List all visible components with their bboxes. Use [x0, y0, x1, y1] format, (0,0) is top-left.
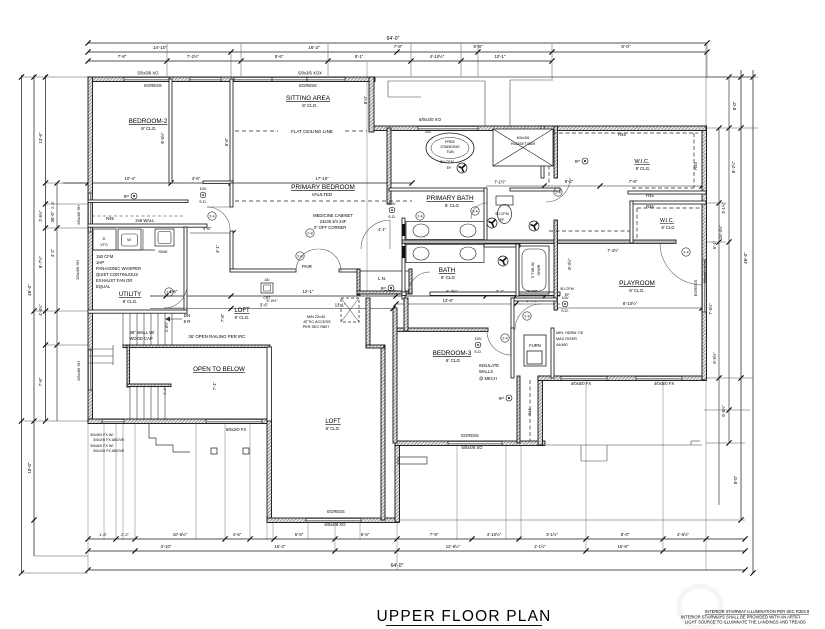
- dim top tier3: [88, 60, 552, 62]
- svg-text:EGRESS: EGRESS: [144, 83, 162, 88]
- svg-text:1'-8": 1'-8": [99, 532, 108, 537]
- dim row y296: [150, 295, 560, 297]
- dim left extensions: [22, 76, 89, 78]
- svg-text:8'-6": 8'-6": [224, 137, 229, 146]
- svg-text:3/0x5/0 FX W/: 3/0x5/0 FX W/: [90, 433, 114, 437]
- svg-text:5' TUB W/: 5' TUB W/: [531, 262, 535, 278]
- wall utility east: [184, 227, 187, 313]
- wall hall west x511: [511, 298, 514, 330]
- dim left x57: [56, 183, 58, 421]
- svg-text:8'-10½": 8'-10½": [623, 301, 638, 306]
- wall furnace west: [511, 328, 514, 378]
- free standing tub: [426, 133, 474, 163]
- door hall: [207, 207, 230, 230]
- svg-text:6/6x2/0 FX: 6/6x2/0 FX: [226, 427, 246, 432]
- svg-text:R45: R45: [527, 408, 532, 416]
- wall long y241: [402, 240, 676, 243]
- svg-text:36" WALL W/: 36" WALL W/: [130, 330, 156, 335]
- svg-text:10V: 10V: [388, 201, 395, 206]
- door primary bath: [361, 220, 390, 249]
- svg-text:8'-7½": 8'-7½": [38, 255, 43, 268]
- svg-text:R45: R45: [618, 132, 626, 137]
- svg-text:7'-9": 7'-9": [430, 532, 439, 537]
- svg-text:6'-5½": 6'-5½": [712, 352, 717, 364]
- wall utility south: [88, 310, 187, 313]
- window left wall lower 2/6x4/6 SH: [88, 350, 93, 390]
- door circle 2-4: [501, 334, 509, 342]
- wall bath west: [402, 218, 405, 299]
- exterior wall right: [702, 126, 707, 380]
- dim right x741: [740, 70, 742, 520]
- svg-text:50 CFM: 50 CFM: [495, 212, 509, 216]
- utility sink: [155, 229, 174, 246]
- svg-text:4'-10½": 4'-10½": [430, 54, 445, 59]
- window loft egress 5/0x4/6 XO: [306, 518, 361, 523]
- svg-text:46'-0": 46'-0": [743, 252, 748, 264]
- svg-text:2-4: 2-4: [683, 251, 688, 255]
- exterior wall bedroom-3 south: [395, 441, 545, 446]
- attic access hatch: [341, 298, 359, 322]
- svg-text:8' CLG: 8' CLG: [441, 275, 456, 280]
- half wall wood cap: [123, 345, 270, 348]
- svg-text:12'-6½": 12'-6½": [446, 544, 461, 549]
- svg-text:2/6x4/6 SH: 2/6x4/6 SH: [76, 205, 81, 225]
- door circle 2-0: [296, 252, 304, 260]
- svg-text:W.I.C.: W.I.C.: [660, 218, 674, 224]
- svg-text:36' OPEN RAILING PER IRC: 36' OPEN RAILING PER IRC: [188, 334, 245, 339]
- vanity primary bath: [406, 222, 484, 240]
- svg-text:2-4: 2-4: [555, 191, 560, 195]
- wall bedroom-3 north: [396, 328, 488, 331]
- svg-text:MIN. HDRM 7/8: MIN. HDRM 7/8: [556, 331, 583, 335]
- wall open-to-below east: [267, 347, 272, 421]
- svg-text:36'-0": 36'-0": [50, 211, 55, 222]
- door toilet room: [471, 203, 487, 219]
- svg-text:CRT: CRT: [263, 296, 271, 300]
- svg-text:HUDSET BAR: HUDSET BAR: [511, 142, 536, 146]
- toilet: [496, 196, 513, 205]
- svg-text:7'-6": 7'-6": [38, 377, 43, 386]
- wall bedroom-3 west: [393, 308, 397, 443]
- window left wall upper 2/6x4/6 SH: [88, 193, 93, 232]
- svg-text:8'-1": 8'-1": [355, 54, 364, 59]
- svg-text:7'-1": 7'-1": [212, 381, 217, 390]
- svg-text:S.D.: S.D.: [561, 308, 569, 313]
- svg-text:2-4: 2-4: [472, 210, 477, 214]
- washer dryer: [93, 229, 116, 250]
- wall toilet room west: [484, 188, 487, 246]
- svg-text:2'-2": 2'-2": [121, 532, 130, 537]
- dim right extensions: [706, 76, 758, 78]
- window playroom east 6/0x4/0 XOX: [702, 260, 707, 312]
- svg-text:1'-1": 1'-1": [163, 387, 167, 395]
- vanity bath: [406, 245, 484, 263]
- svg-text:64'-0": 64'-0": [387, 36, 400, 42]
- dim bottom tier1: [88, 538, 745, 540]
- fan toilet: [487, 218, 497, 228]
- stairs upper flight: [122, 313, 124, 345]
- exterior wall bottom-left: [88, 419, 271, 424]
- svg-text:4/0x5/0 FX: 4/0x5/0 FX: [571, 381, 591, 386]
- svg-text:13'-1": 13'-1": [335, 303, 346, 308]
- wall hall west upper: [366, 298, 370, 348]
- svg-text:4'-8½": 4'-8½": [38, 304, 43, 316]
- svg-text:3'-6½": 3'-6½": [165, 321, 169, 332]
- svg-text:3" OFF CORNER: 3" OFF CORNER: [314, 225, 347, 230]
- wall bedroom-3 east lower: [517, 376, 520, 443]
- dashed closet shelf: [92, 215, 184, 217]
- svg-text:S.D.: S.D.: [474, 349, 482, 354]
- wall hall east upper x404: [404, 298, 408, 331]
- wall primary bedroom south 2: [339, 269, 360, 272]
- svg-text:@ MECH: @ MECH: [479, 376, 497, 381]
- svg-text:SHWR: SHWR: [537, 264, 541, 275]
- svg-text:8'-0": 8'-0": [621, 532, 630, 537]
- svg-text:R45: R45: [693, 161, 698, 169]
- exterior wall left: [88, 77, 93, 423]
- svg-text:3/0x2/0 FX ABOVE: 3/0x2/0 FX ABOVE: [93, 449, 125, 453]
- svg-text:2'-1½": 2'-1½": [534, 544, 546, 549]
- svg-text:9'-5½": 9'-5½": [160, 132, 165, 144]
- svg-text:8' CLG.: 8' CLG.: [302, 103, 317, 108]
- svg-text:EF: EF: [500, 218, 506, 222]
- door circle 2-4: [416, 212, 424, 220]
- wall wic small west: [630, 201, 633, 243]
- svg-text:8'-0": 8'-0": [621, 44, 631, 49]
- svg-text:8'-3½": 8'-3½": [567, 258, 572, 270]
- svg-text:LIGHT SOURCE TO ILLUMINATE THE: LIGHT SOURCE TO ILLUMINATE THE LANDINGS …: [685, 620, 806, 625]
- svg-text:8' CLG.: 8' CLG.: [123, 299, 138, 304]
- ext line x367: [366, 62, 368, 296]
- wall hall y300: [511, 298, 557, 301]
- door wic big: [546, 178, 570, 202]
- svg-text:4'-6": 4'-6": [192, 176, 201, 181]
- window top small: [190, 77, 221, 82]
- svg-text:10'-4": 10'-4": [125, 176, 136, 181]
- svg-text:2-4: 2-4: [502, 337, 507, 341]
- svg-text:EGRESS: EGRESS: [693, 279, 698, 296]
- svg-text:VTO: VTO: [100, 243, 108, 247]
- svg-text:2/0x4/6 SH: 2/0x4/6 SH: [75, 260, 80, 280]
- svg-text:17'-10": 17'-10": [315, 176, 329, 181]
- window bedroom-2 egress: [124, 77, 169, 82]
- dim top 64'-0": [88, 42, 707, 44]
- svg-text:PLAYROOM: PLAYROOM: [619, 280, 655, 287]
- wall wic big west: [541, 126, 544, 178]
- svg-text:8 R: 8 R: [184, 319, 191, 324]
- chimney bump: [398, 457, 427, 464]
- window sitting area egress: [234, 77, 345, 82]
- svg-text:10'-0": 10'-0": [27, 462, 32, 473]
- svg-text:3'-6": 3'-6": [260, 303, 269, 308]
- svg-text:16'-2": 16'-2": [308, 45, 320, 50]
- wall hall x554: [554, 220, 557, 310]
- svg-text:4'-1": 4'-1": [215, 244, 220, 253]
- svg-text:12'-1": 12'-1": [303, 289, 314, 294]
- wall bath east upper: [554, 126, 557, 178]
- svg-text:10V: 10V: [561, 295, 568, 300]
- svg-text:LOFT: LOFT: [325, 419, 341, 425]
- svg-text:8' CLG.: 8' CLG.: [629, 288, 644, 293]
- wall hall south: [203, 181, 233, 183]
- dim row y233: [190, 232, 233, 234]
- svg-text:8'-0": 8'-0": [363, 95, 368, 104]
- svg-text:16'-6": 16'-6": [618, 544, 629, 549]
- svg-text:8' CLG.: 8' CLG.: [326, 426, 341, 431]
- svg-text:50 CFM: 50 CFM: [560, 287, 574, 291]
- svg-text:BP: BP: [499, 396, 505, 401]
- svg-text:PAIR: PAIR: [302, 264, 312, 269]
- utility counter: [92, 249, 155, 251]
- svg-text:ATTIC ACCESS: ATTIC ACCESS: [303, 320, 331, 324]
- svg-text:8' CLG: 8' CLG: [662, 225, 675, 230]
- door bath: [408, 272, 430, 294]
- svg-text:6'-1": 6'-1": [712, 240, 717, 249]
- svg-text:4'-2": 4'-2": [50, 248, 55, 257]
- svg-text:INTERIOR STAIRWAY ILLUMINATION: INTERIOR STAIRWAY ILLUMINATION PER SEC R…: [705, 609, 810, 614]
- door circle 2-4: [165, 288, 173, 296]
- wall closet/utility divider: [88, 224, 207, 227]
- svg-text:2'-4": 2'-4": [50, 200, 55, 209]
- window playroom south 1: [561, 376, 607, 381]
- wall hall east / sitting west upper: [230, 79, 233, 183]
- svg-text:50 CFM: 50 CFM: [440, 160, 454, 164]
- svg-text:2-6: 2-6: [524, 315, 529, 319]
- dashed r45 over garage: [549, 230, 630, 232]
- svg-text:R45: R45: [646, 193, 654, 198]
- svg-text:10V: 10V: [474, 336, 481, 341]
- svg-text:7'-2½": 7'-2½": [187, 54, 200, 59]
- exterior wall loft west: [267, 419, 272, 522]
- door circle 2-4: [208, 212, 216, 220]
- dim row y308 left: [150, 308, 393, 310]
- wall primary bedroom west lower: [230, 231, 233, 271]
- svg-text:S.D.: S.D.: [388, 214, 396, 219]
- svg-text:46'-0": 46'-0": [27, 284, 32, 296]
- svg-text:7'-6½": 7'-6½": [708, 303, 713, 315]
- svg-text:2-8: 2-8: [307, 232, 312, 236]
- svg-text:PRIMARY BEDROOM: PRIMARY BEDROOM: [291, 184, 355, 191]
- wall wic small north: [630, 201, 706, 204]
- svg-text:EGRESS: EGRESS: [299, 83, 317, 88]
- wall primary bedroom south 1: [230, 269, 296, 272]
- window bedroom-3 egress: [448, 441, 502, 446]
- svg-text:BATH: BATH: [439, 267, 456, 274]
- door utility: [164, 285, 187, 308]
- door bedroom-3: [487, 331, 511, 355]
- svg-text:4'-6": 4'-6": [233, 532, 242, 537]
- svg-text:3'-1½": 3'-1½": [546, 532, 558, 537]
- svg-text:24x36 3/4 24F: 24x36 3/4 24F: [320, 219, 347, 224]
- fan bath tub: [529, 221, 539, 231]
- svg-text:8' CLG.: 8' CLG.: [235, 315, 250, 320]
- svg-text:7'-4½": 7'-4½": [607, 248, 619, 253]
- svg-text:6'-5½": 6'-5½": [721, 405, 726, 417]
- dashed vaulted line: [235, 200, 412, 202]
- svg-text:13'-6": 13'-6": [443, 298, 454, 303]
- svg-text:OPEN TO BELOW: OPEN TO BELOW: [193, 366, 245, 373]
- dim bottom extensions: [103, 423, 105, 540]
- wall wic big south: [628, 191, 706, 194]
- dashed r45 wic small: [637, 207, 702, 209]
- roof step left: [149, 423, 190, 452]
- door furnace closet: [515, 304, 541, 330]
- svg-text:EGRESS: EGRESS: [461, 433, 479, 438]
- fan primary bath: [457, 163, 467, 173]
- wall primary bath north 2: [510, 188, 560, 191]
- svg-text:7'-8": 7'-8": [220, 313, 225, 322]
- dim top tier2: [88, 51, 707, 53]
- svg-text:6'-6": 6'-6": [295, 532, 304, 537]
- exterior wall sitting east: [369, 77, 374, 132]
- svg-text:7'-9": 7'-9": [629, 179, 638, 184]
- svg-text:10V: 10V: [199, 186, 206, 191]
- svg-text:DN: DN: [184, 313, 190, 318]
- tub with shower: [519, 246, 549, 294]
- notes watermark circle: [679, 586, 721, 628]
- svg-text:3/0x6/0 FX W/: 3/0x6/0 FX W/: [90, 444, 114, 448]
- svg-text:W: W: [127, 237, 131, 242]
- door circle 2-4: [554, 188, 562, 196]
- svg-text:INSULATE: INSULATE: [479, 363, 499, 368]
- svg-text:10'-1": 10'-1": [495, 54, 506, 59]
- wall tub west: [516, 244, 519, 296]
- svg-text:7'-8": 7'-8": [118, 54, 127, 59]
- svg-text:R45: R45: [646, 204, 654, 209]
- svg-text:5/0x3/6 XO: 5/0x3/6 XO: [138, 71, 160, 76]
- svg-text:S.D.: S.D.: [199, 199, 207, 204]
- svg-text:7'-1½": 7'-1½": [494, 180, 506, 185]
- dim right x719: [718, 128, 720, 505]
- dim row y186 wic: [486, 185, 702, 187]
- svg-text:R45: R45: [106, 216, 114, 221]
- window bottom-left 6/6x2/0 FX: [206, 419, 262, 424]
- wall primary bedroom west upper: [230, 183, 233, 207]
- svg-text:BP: BP: [124, 194, 130, 199]
- roof deck outline top: [375, 76, 753, 78]
- dim bottom tier2: [88, 550, 745, 552]
- svg-text:1HP: 1HP: [96, 260, 104, 265]
- svg-text:MIN 22x30: MIN 22x30: [307, 315, 325, 319]
- svg-text:3/0x2/0 FX ABOVE: 3/0x2/0 FX ABOVE: [93, 438, 125, 442]
- svg-text:2-4: 2-4: [417, 215, 422, 219]
- svg-text:D: D: [103, 236, 106, 241]
- svg-text:BP: BP: [575, 159, 581, 164]
- svg-text:44/480: 44/480: [556, 343, 568, 347]
- roof outline lower right: [546, 444, 702, 446]
- svg-text:14'-10": 14'-10": [153, 45, 168, 50]
- svg-text:2/6x4/6 SH: 2/6x4/6 SH: [76, 361, 81, 381]
- svg-text:SITTING AREA: SITTING AREA: [286, 95, 331, 102]
- svg-text:2-4: 2-4: [209, 215, 214, 219]
- wall loft east lower: [381, 345, 385, 520]
- svg-text:8'-2½": 8'-2½": [731, 160, 736, 173]
- stairs winders: [89, 348, 113, 350]
- svg-text:AD: AD: [265, 278, 270, 282]
- svg-text:UPPER FLOOR PLAN: UPPER FLOOR PLAN: [376, 608, 551, 625]
- hudset bar: [493, 129, 553, 166]
- svg-text:8' CLG.: 8' CLG.: [636, 166, 651, 171]
- svg-text:SINK: SINK: [158, 249, 168, 254]
- svg-text:PER SEC R807: PER SEC R807: [303, 325, 330, 329]
- svg-text:6/0x4/0 XO: 6/0x4/0 XO: [419, 117, 442, 122]
- svg-text:5/0x4/6 XO: 5/0x4/6 XO: [325, 522, 347, 527]
- svg-text:2-4: 2-4: [166, 291, 171, 295]
- attic access box hall: [261, 283, 273, 293]
- exterior wall top (bedroom-2 / sitting area): [88, 77, 375, 82]
- svg-text:3'-10": 3'-10": [161, 544, 172, 549]
- svg-text:W.I.C.: W.I.C.: [634, 159, 650, 165]
- exterior wall bath west upper: [387, 128, 391, 204]
- dim bottom 64'-0": [88, 569, 745, 571]
- svg-text:4/0x5/0 FX: 4/0x5/0 FX: [654, 381, 674, 386]
- svg-text:15'-2": 15'-2": [275, 544, 286, 549]
- dim right x729: [728, 77, 730, 443]
- door circle 2-8: [306, 229, 314, 237]
- wall closet north: [88, 200, 188, 202]
- svg-text:EQUAL: EQUAL: [96, 284, 111, 289]
- svg-text:UTILITY: UTILITY: [119, 292, 141, 298]
- svg-text:QUIET CONTINUOUS: QUIET CONTINUOUS: [96, 272, 138, 277]
- svg-text:8' CLG: 8' CLG: [445, 203, 460, 208]
- door circle 2-4: [471, 207, 479, 215]
- svg-text:4'-10½": 4'-10½": [487, 532, 502, 537]
- dim row y183: [63, 182, 412, 184]
- svg-text:2-0: 2-0: [297, 255, 302, 259]
- dim extension lines top: [166, 44, 168, 76]
- svg-text:3'-1½": 3'-1½": [721, 202, 726, 214]
- svg-text:EF: EF: [447, 166, 453, 170]
- svg-text:EXHAUST FAN OR: EXHAUST FAN OR: [96, 278, 132, 283]
- window bottom-left 3/0x5/0: [102, 419, 124, 424]
- svg-text:8'-0": 8'-0": [732, 101, 737, 110]
- window playroom south 2: [636, 376, 682, 381]
- door pair left: [296, 249, 318, 271]
- wall toilet room south: [484, 244, 520, 247]
- svg-text:WOOD CAP: WOOD CAP: [129, 336, 152, 341]
- svg-text:EGRESS: EGRESS: [327, 509, 345, 514]
- svg-text:WALLS: WALLS: [479, 369, 493, 374]
- door circle 2-6: [523, 312, 531, 320]
- svg-text:5/0x3/6 XOX: 5/0x3/6 XOX: [298, 71, 322, 76]
- fan bath: [498, 256, 508, 266]
- wall primary bath north 1: [389, 188, 486, 191]
- door circle 2-4: [682, 248, 690, 256]
- svg-text:6/0x3/6: 6/0x3/6: [517, 136, 529, 140]
- wall bath south: [402, 292, 406, 295]
- dim row y308 playroom: [556, 307, 702, 309]
- svg-text:TUB: TUB: [446, 150, 454, 154]
- wall bedroom-2 east: [169, 79, 172, 183]
- dashed flat ceiling line: [235, 130, 278, 132]
- exterior wall loft south: [267, 518, 399, 523]
- svg-text:4'-6½": 4'-6½": [677, 532, 690, 537]
- svg-text:MEDICINE CABINET: MEDICINE CABINET: [313, 213, 353, 218]
- svg-text:8'-6": 8'-6": [275, 54, 284, 59]
- svg-text:10'-6½": 10'-6½": [173, 532, 188, 537]
- svg-text:SG: SG: [425, 129, 431, 134]
- dim left 46'-0" outer: [21, 75, 23, 573]
- svg-text:L.N.: L.N.: [378, 276, 386, 281]
- svg-text:FREE: FREE: [445, 140, 456, 144]
- door pair right: [319, 249, 341, 271]
- svg-text:MAX RISER: MAX RISER: [556, 337, 577, 341]
- exterior wall x397: [395, 441, 400, 522]
- svg-text:6'-6": 6'-6": [361, 532, 370, 537]
- svg-text:7'-8": 7'-8": [394, 44, 403, 49]
- svg-text:BEDROOM-3: BEDROOM-3: [433, 350, 472, 357]
- svg-text:13'-6": 13'-6": [38, 132, 43, 143]
